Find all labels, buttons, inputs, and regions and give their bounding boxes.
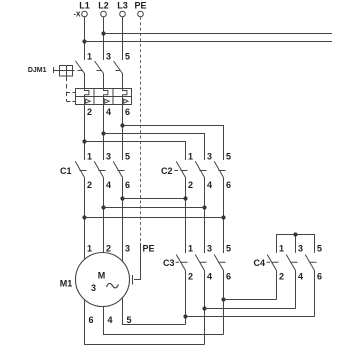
node cross link c right [221, 215, 225, 219]
svg-text:2: 2 [87, 107, 92, 117]
contactor C4 pin label 6 [317, 272, 322, 282]
svg-text:1: 1 [87, 51, 92, 61]
node cross link a right [183, 196, 187, 200]
wire motor 6 bottom [85, 300, 205, 345]
svg-text:6: 6 [226, 272, 231, 282]
contactor C3 pin label 5 [226, 243, 231, 253]
wire C4 out 6 down [314, 271, 316, 317]
wire C2 out 4 down to C3 [204, 178, 206, 254]
contactor C2 pole 3 contact blade [214, 161, 223, 177]
contactor C4 pin label 5 [317, 243, 322, 253]
contactor C1 pin label 6 [125, 180, 130, 190]
contactor C4 pole 3 contact blade [305, 255, 314, 271]
breaker pole 2 magnetic release hook [104, 89, 108, 97]
svg-text:5: 5 [125, 151, 130, 161]
node cross link b left [101, 205, 105, 209]
node tap to C2 pole 5 [120, 123, 124, 127]
node tap to C2 pole 1 [82, 139, 86, 143]
svg-text:2: 2 [279, 272, 284, 282]
motor M1 label [60, 279, 73, 289]
breaker pole 2 contact blade [95, 55, 104, 89]
breaker DJM1 operator handle [54, 66, 75, 77]
wire C2 out 6 down to C3 [223, 178, 225, 254]
svg-text:3: 3 [106, 151, 111, 161]
node cross link b right [202, 205, 206, 209]
wire PE dashed vertical [140, 17, 142, 243]
contactor C1 pin label 2 [87, 180, 92, 190]
svg-text:C4: C4 [253, 258, 265, 268]
wire L1 tap to right [85, 41, 333, 43]
svg-text:5: 5 [226, 243, 231, 253]
contactor C1 pole 2 contact blade [94, 161, 103, 177]
wire breaker out 4 down to C1 [103, 105, 105, 161]
breaker pole 3 contact blade [114, 55, 123, 89]
svg-text:1: 1 [188, 151, 193, 161]
svg-text:L3: L3 [117, 1, 128, 11]
contactor C1 pole 1 contact blade [75, 161, 84, 177]
contactor C4 pole 1 contact blade [267, 255, 276, 271]
breaker pin label 5 [125, 51, 130, 61]
terminal circle PE [138, 11, 144, 17]
svg-text:4: 4 [298, 272, 303, 282]
terminal label L3 [117, 1, 128, 11]
contactor C1 pin label 1 [87, 151, 92, 161]
wire C3 out 6 down [223, 271, 225, 335]
svg-text:2: 2 [188, 180, 193, 190]
wire C1 out 6 down to motor [122, 178, 124, 261]
contactor C4 pin label 3 [298, 243, 303, 253]
wire cross link a [123, 198, 186, 200]
node tap to C2 pole 3 [101, 131, 105, 135]
node L1 tap junction [82, 39, 86, 43]
node C3 out 4 junction [202, 306, 206, 310]
contactor C3 pole 1 contact blade [176, 255, 185, 271]
contactor C4 pin label 1 [279, 243, 284, 253]
wire tap to C2 pole 5 [123, 126, 224, 161]
svg-text:6: 6 [317, 272, 322, 282]
contactor C3 pin label 1 [188, 243, 193, 253]
wire C4 out 4 down [295, 271, 297, 309]
svg-text:3: 3 [125, 243, 130, 253]
wire C3 out 2 to C4 out 6 [186, 316, 315, 318]
contactor C4 star bridge [277, 235, 315, 253]
wire C3 out 2 down [185, 271, 187, 325]
wire L2 vertical [103, 17, 105, 60]
contactor C3 pole 2 contact blade [195, 255, 204, 271]
contactor C3 label [163, 258, 175, 268]
wire PE solid to motor frame [134, 243, 141, 280]
contactor C2 pole 2 contact blade [195, 161, 204, 177]
breaker pin label 3 [106, 51, 111, 61]
svg-text:1: 1 [87, 151, 92, 161]
svg-text:3: 3 [106, 51, 111, 61]
contactor C2 pin label 6 [226, 180, 231, 190]
svg-text:5: 5 [317, 243, 322, 253]
svg-text:4: 4 [106, 107, 111, 117]
contactor C1 pin label 3 [106, 151, 111, 161]
terminal circle L3 [120, 11, 126, 17]
wire L1 vertical [84, 17, 86, 60]
breaker pole 3 thermal release [123, 97, 129, 105]
svg-text:6: 6 [89, 315, 94, 325]
svg-text:C3: C3 [163, 258, 175, 268]
motor M1 text M [98, 270, 106, 280]
contactor C4 pin label 4 [298, 272, 303, 282]
svg-text:4: 4 [108, 315, 113, 325]
svg-text:L1: L1 [79, 1, 90, 11]
breaker DJM1 linkage dashed vertical [67, 77, 76, 102]
motor M1 text 3 [91, 283, 96, 293]
contactor C2 pole 1 contact blade [176, 161, 185, 177]
terminal label PE [134, 1, 146, 11]
node L2 tap junction [101, 31, 105, 35]
motor M1 body [76, 253, 130, 307]
svg-text:3: 3 [207, 243, 212, 253]
contactor C2 label [161, 166, 173, 176]
breaker DJM1 label [28, 67, 47, 74]
contactor C2 linkage dashes [175, 170, 226, 172]
svg-text:4: 4 [207, 272, 212, 282]
contactor C2 pin label 2 [188, 180, 193, 190]
node C3 out 2 junction [183, 314, 187, 318]
breaker DJM1 linkage dashes to poles [78, 70, 121, 72]
svg-text:2: 2 [106, 243, 111, 253]
svg-text:5: 5 [125, 51, 130, 61]
motor M1 terminal label 1 [87, 243, 92, 253]
svg-text:L2: L2 [98, 1, 109, 11]
node cross link c left [82, 215, 86, 219]
breaker pole 3 magnetic release hook [123, 89, 127, 97]
wire motor 5 bottom [123, 298, 186, 324]
wire tap to C2 pole 3 [104, 134, 205, 161]
svg-text:PE: PE [134, 1, 146, 11]
contactor C1 pin label 5 [125, 151, 130, 161]
wire C1 out 2 down to motor [84, 178, 86, 260]
wire C4 out 2 down [276, 271, 278, 300]
contactor C1 pole 3 contact blade [113, 161, 122, 177]
svg-text:3: 3 [207, 151, 212, 161]
svg-text:-X: -X [74, 12, 81, 19]
contactor C2 pin label 5 [226, 151, 231, 161]
terminal label L1 [79, 1, 90, 11]
contactor C1 pin label 4 [106, 180, 111, 190]
wire C3 out 4 to C4 out 4 [205, 308, 296, 310]
svg-text:6: 6 [125, 107, 130, 117]
breaker pole 1 contact blade [76, 55, 85, 89]
wire C3 out 6 to C4 out 2 [224, 299, 277, 301]
contactor C3 pin label 3 [207, 243, 212, 253]
svg-text:3: 3 [298, 243, 303, 253]
svg-text:1: 1 [279, 243, 284, 253]
wire L3 vertical [122, 17, 124, 60]
svg-text:6: 6 [226, 180, 231, 190]
node cross link a left [120, 196, 124, 200]
svg-text:5: 5 [127, 315, 132, 325]
svg-text:3: 3 [91, 283, 96, 293]
svg-text:2: 2 [188, 272, 193, 282]
svg-text:M: M [98, 270, 106, 280]
terminal strip label -X [74, 12, 81, 19]
motor M1 PE terminal label [143, 243, 155, 253]
terminal label L2 [98, 1, 109, 11]
wire breaker out 2 down to C1 [84, 105, 86, 161]
svg-text:C1: C1 [60, 166, 72, 176]
contactor C4 pole 2 contact blade [286, 255, 295, 271]
contactor C3 pole 3 contact blade [214, 255, 223, 271]
svg-text:1: 1 [87, 243, 92, 253]
contactor C3 pin label 4 [207, 272, 212, 282]
motor M1 terminal label 6 [89, 315, 94, 325]
breaker pole 1 magnetic release hook [85, 89, 89, 97]
wire L2 tap to right [104, 33, 333, 35]
node C4 bridge junction [293, 232, 297, 236]
wire C1 out 4 down to motor [103, 178, 105, 253]
wire breaker out 6 down to C1 [122, 105, 124, 161]
breaker pole 2 thermal release [104, 97, 110, 105]
terminal circle L2 [101, 11, 107, 17]
contactor C3 pin label 2 [188, 272, 193, 282]
svg-text:1: 1 [188, 243, 193, 253]
svg-text:C2: C2 [161, 166, 173, 176]
breaker pole 1 thermal release [85, 97, 91, 105]
wire motor 4 bottom [104, 306, 224, 334]
svg-text:6: 6 [125, 180, 130, 190]
contactor C4 linkage dashes [267, 261, 317, 263]
motor M1 terminal label 2 [106, 243, 111, 253]
motor M1 phase tilde [107, 283, 119, 287]
contactor C4 pin label 2 [279, 272, 284, 282]
breaker pin label 6 [125, 107, 130, 117]
contactor C4 label [253, 258, 265, 268]
contactor C3 pin label 6 [226, 272, 231, 282]
node C3 out 6 junction [221, 297, 225, 301]
wire cross link b [104, 207, 205, 209]
breaker pin label 1 [87, 51, 92, 61]
contactor C1 label [60, 166, 72, 176]
wire C3 out 4 down [204, 271, 206, 345]
motor M1 terminal label 5 [127, 315, 132, 325]
contactor C2 pin label 3 [207, 151, 212, 161]
wire cross link c [85, 217, 224, 219]
motor M1 terminal label 4 [108, 315, 113, 325]
breaker DJM1 release box [76, 89, 132, 105]
svg-text:M1: M1 [60, 279, 73, 289]
svg-text:PE: PE [143, 243, 155, 253]
wire tap to C2 pole 1 [85, 142, 186, 161]
contactor C1 linkage dashes [80, 170, 125, 172]
contactor C2 pin label 1 [188, 151, 193, 161]
motor frame PE bar [132, 275, 134, 285]
svg-text:4: 4 [207, 180, 212, 190]
breaker pin label 4 [106, 107, 111, 117]
svg-text:4: 4 [106, 180, 111, 190]
breaker pin label 2 [87, 107, 92, 117]
terminal circle L1 [82, 11, 88, 17]
contactor C2 pin label 4 [207, 180, 212, 190]
wire C2 out 2 down to C3 [185, 178, 187, 254]
svg-text:5: 5 [226, 151, 231, 161]
motor M1 terminal label 3 [125, 243, 130, 253]
svg-text:DJM1: DJM1 [28, 67, 47, 74]
svg-text:2: 2 [87, 180, 92, 190]
contactor C3 linkage dashes [176, 261, 226, 263]
